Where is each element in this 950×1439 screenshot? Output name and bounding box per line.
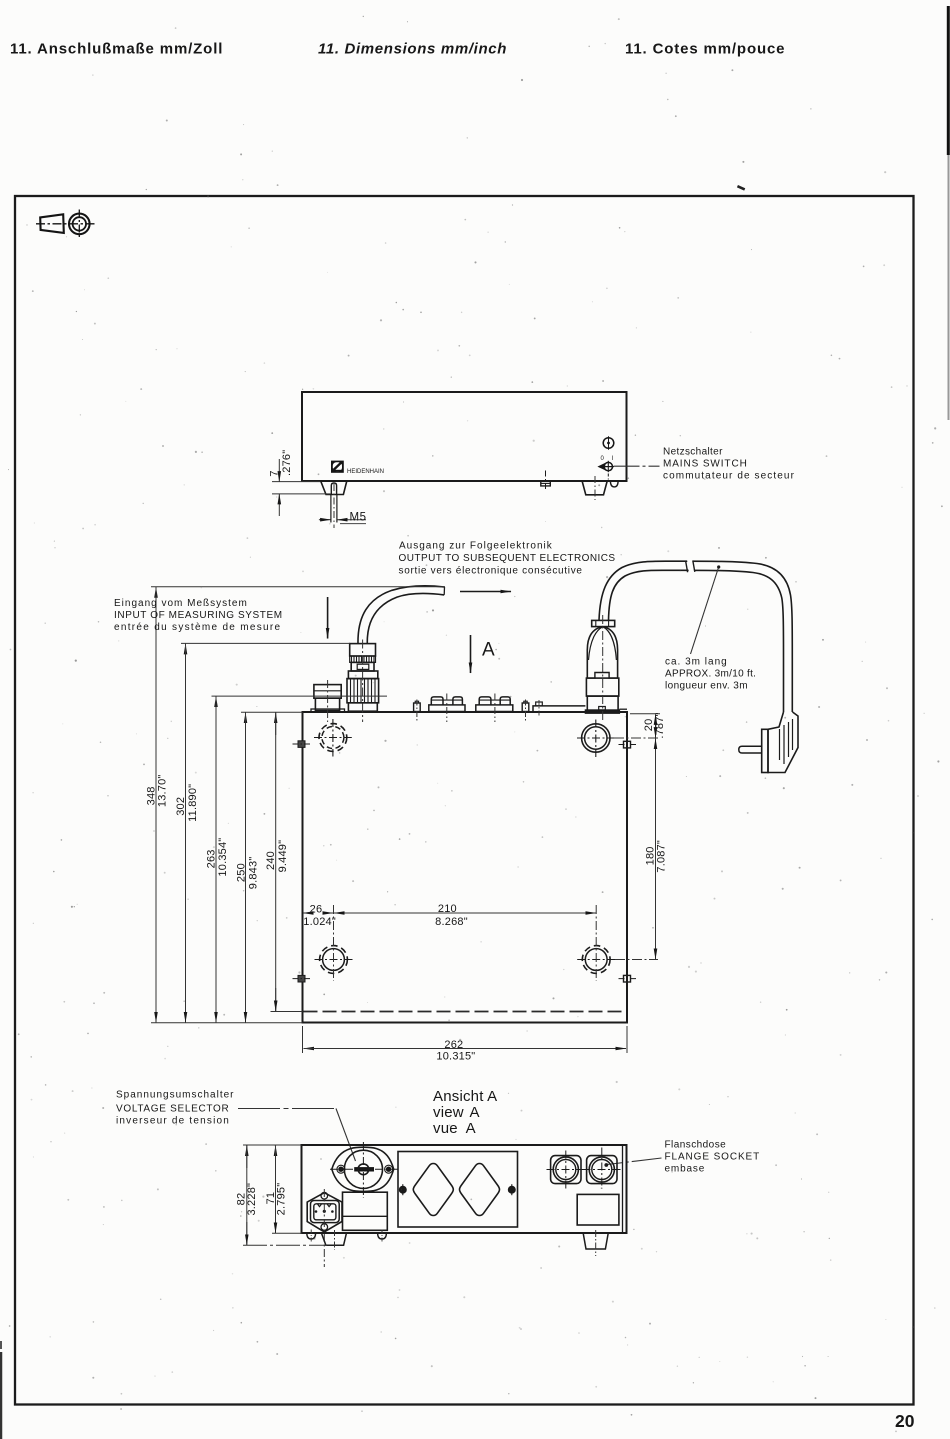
svg-text:inverseur de tension: inverseur de tension <box>116 1116 230 1127</box>
svg-text:vue A: vue A <box>433 1120 476 1137</box>
bottom view left foot <box>322 1233 347 1245</box>
bottom right box <box>577 1194 619 1225</box>
svg-text:11. Dimensions mm/inch: 11. Dimensions mm/inch <box>318 41 507 58</box>
foot circle bottom-left <box>315 946 353 974</box>
foot BR centerline extension <box>615 959 658 961</box>
svg-text:longueur env. 3m: longueur env. 3m <box>665 681 748 692</box>
svg-text:entrée du système de mesur: entrée du système de mesure <box>114 622 281 633</box>
svg-text:VOLTAGE SELECTOR: VOLTAGE SELECTOR <box>116 1104 229 1115</box>
output cable <box>599 561 792 712</box>
flange socket leader <box>607 1158 662 1165</box>
extension line dashed level <box>271 1011 303 1013</box>
input connector stack <box>347 644 379 712</box>
M5 stud centerline <box>333 484 335 528</box>
svg-text:3.228": 3.228" <box>246 1183 258 1216</box>
svg-text:7: 7 <box>269 471 281 477</box>
dim line 262 <box>304 1048 627 1050</box>
foot circle bottom-right <box>577 946 615 974</box>
mid connector 1 <box>429 697 465 712</box>
extension line 250/240 top <box>241 711 303 713</box>
front screw top right <box>603 436 614 450</box>
heidenhain logo square <box>331 461 344 473</box>
dim 26/210 line <box>303 912 597 914</box>
svg-text:10.354": 10.354" <box>217 838 229 877</box>
rear panel outline <box>302 1145 627 1233</box>
page right-edge scan line <box>947 6 950 155</box>
bottom dim 262 extension lines <box>302 1026 304 1053</box>
right top extension for 20 <box>630 713 660 715</box>
svg-text:Ausgang zur Folgeelektronik: Ausgang zur Folgeelektronik <box>399 541 553 552</box>
page left-edge scan mark <box>0 1352 2 1439</box>
dim 7/.276 dimension line with arrows <box>278 459 280 482</box>
mid connector 1 centerline <box>446 694 448 723</box>
side screw right lower <box>619 975 638 982</box>
svg-text:26: 26 <box>310 903 323 915</box>
foot BR vertical centerline ext <box>595 905 597 981</box>
fuse holder box <box>343 1192 388 1230</box>
plate screw left <box>399 1184 406 1195</box>
svg-text:A: A <box>482 640 495 661</box>
diamond cutout 1 <box>413 1164 453 1216</box>
extension line 263 top <box>212 695 388 697</box>
svg-text:240: 240 <box>265 851 277 870</box>
small rect connector on rear edge <box>311 685 345 712</box>
extension line bottom common <box>151 1022 303 1024</box>
svg-text:20: 20 <box>643 719 655 732</box>
dim line 71 <box>275 1145 277 1233</box>
voltage selector <box>330 1142 398 1198</box>
svg-text:Eingang vom Meßsystem: Eingang vom Meßsystem <box>114 598 248 609</box>
top view case outline <box>303 712 628 1023</box>
flange socket 1 <box>547 1151 586 1189</box>
ca 3m leader line <box>691 568 719 655</box>
svg-text:.787": .787" <box>654 712 666 738</box>
panel screw bump left <box>307 1233 316 1239</box>
plate screw right <box>508 1184 515 1195</box>
IEC inlet <box>307 1192 342 1232</box>
rear screw 2 <box>522 701 529 711</box>
front left foot <box>321 481 347 495</box>
svg-text:APPROX. 3m/10 ft.: APPROX. 3m/10 ft. <box>665 669 756 680</box>
panel inner right edge <box>622 1146 624 1233</box>
dim line 263 <box>215 696 217 1022</box>
IEC centerline <box>323 1189 325 1267</box>
dim 82/71 extension lines <box>243 1144 302 1146</box>
svg-text:FLANGE SOCKET: FLANGE SOCKET <box>665 1152 761 1163</box>
input direction arrow <box>327 597 329 639</box>
mains switch leader line <box>614 465 660 467</box>
foot BL vertical centerline ext <box>333 905 335 981</box>
svg-text:Ansicht A: Ansicht A <box>433 1088 497 1105</box>
svg-text:commutateur de secteur: commutateur de secteur <box>663 471 795 482</box>
svg-text:Flanschdose: Flanschdose <box>665 1140 727 1151</box>
front right screw bump <box>610 481 618 487</box>
view A arrow <box>470 635 472 673</box>
svg-text:7.087": 7.087" <box>656 840 668 873</box>
dim line 180 <box>655 738 657 960</box>
svg-text:11. Anschlußmaße mm/Zoll: 11. Anschlußmaße mm/Zoll <box>10 41 223 58</box>
svg-text:11.890": 11.890" <box>187 784 199 822</box>
first-angle projection symbol: cone <box>40 214 64 233</box>
stray mark above frame <box>737 185 745 191</box>
center cutout plate <box>398 1152 518 1228</box>
svg-text:HEIDENHAIN: HEIDENHAIN <box>347 469 384 475</box>
svg-text:0: 0 <box>601 456 605 462</box>
svg-text:13.70": 13.70" <box>156 774 168 807</box>
output connector centerline <box>602 615 604 722</box>
header row <box>10 41 785 58</box>
ca 3m label <box>665 657 756 692</box>
output connector <box>585 620 619 713</box>
svg-text:2.795": 2.795" <box>276 1183 288 1216</box>
svg-text:250: 250 <box>235 863 247 882</box>
bottom view right foot <box>583 1233 608 1249</box>
panel screw bump right <box>378 1233 387 1239</box>
foot circle top-left <box>314 719 352 757</box>
dim 7/.276 extension lines <box>272 481 320 483</box>
svg-text:Spannungsumschalter: Spannungsumschalter <box>116 1090 235 1101</box>
svg-text:Netzschalter: Netzschalter <box>663 447 723 458</box>
input cable <box>358 586 445 644</box>
svg-text:I: I <box>612 456 614 462</box>
dim line 20 <box>655 714 657 737</box>
svg-text:ca. 3m lang: ca. 3m lang <box>665 657 728 668</box>
cable break marks <box>686 559 695 573</box>
svg-text:OUTPUT TO SUBSEQUENT ELECTR: OUTPUT TO SUBSEQUENT ELECTRONICS <box>399 553 616 564</box>
rear screw 1 <box>414 701 421 711</box>
foot circle top-right <box>577 720 615 758</box>
dim line 348 <box>155 587 157 1022</box>
dim line 82 <box>246 1145 248 1245</box>
svg-text:MAINS SWITCH: MAINS SWITCH <box>663 459 748 470</box>
input connector centerline <box>362 640 364 723</box>
side screw right upper <box>619 741 638 748</box>
Ansicht A title <box>433 1088 497 1137</box>
svg-text:10.315": 10.315" <box>436 1051 475 1063</box>
mains switch label <box>663 447 795 482</box>
svg-text:9.843": 9.843" <box>248 857 260 890</box>
flange socket 2 <box>583 1148 622 1189</box>
svg-text:210: 210 <box>438 903 457 915</box>
dim line 250 <box>245 712 247 1022</box>
side screw left lower <box>293 975 313 982</box>
svg-text:9.449": 9.449" <box>277 840 289 873</box>
extension line 302 top <box>181 642 350 644</box>
svg-text:.276": .276" <box>281 450 293 476</box>
output direction arrow <box>460 591 511 593</box>
svg-text:20: 20 <box>895 1411 915 1431</box>
diamond cutout 2 <box>460 1164 500 1216</box>
plate screw dash <box>538 700 540 716</box>
side screw left upper <box>293 741 313 748</box>
svg-text:1.024": 1.024" <box>303 916 336 928</box>
extension line 348 top <box>151 586 445 588</box>
inner dashed line near bottom <box>304 1011 627 1013</box>
voltage selector leader <box>238 1109 356 1162</box>
Flanschdose label <box>665 1140 761 1175</box>
first-angle projection symbol: circle <box>36 210 96 239</box>
svg-text:302: 302 <box>175 797 187 816</box>
Eingang label <box>114 598 283 633</box>
svg-text:sortie vers électronique co: sortie vers électronique consécutive <box>399 566 583 577</box>
mid connector 2 centerline <box>494 694 496 723</box>
front right foot <box>582 481 607 495</box>
border frame <box>15 196 914 1405</box>
svg-text:11. Cotes mm/pouce: 11. Cotes mm/pouce <box>625 41 785 58</box>
mains switch toggle <box>597 461 614 480</box>
foot TR centerline extension <box>614 737 658 739</box>
svg-text:view A: view A <box>433 1104 480 1121</box>
svg-text:INPUT OF MEASURING SYSTEM: INPUT OF MEASURING SYSTEM <box>114 610 283 621</box>
front view case body <box>302 392 627 481</box>
svg-text:263: 263 <box>206 849 218 868</box>
small rect connector centerline <box>327 680 329 722</box>
mains plug <box>739 712 798 773</box>
rear mounting plate <box>533 702 627 712</box>
dim line 302 <box>185 644 187 1023</box>
Ausgang label <box>399 541 616 577</box>
svg-text:embase: embase <box>665 1164 706 1175</box>
svg-text:8.268": 8.268" <box>435 916 468 928</box>
front center screw <box>541 471 551 490</box>
Spannungsumschalter label <box>116 1090 235 1127</box>
mid connector 2 <box>476 697 513 712</box>
M5 stud in foot <box>331 483 337 523</box>
front right foot centerline <box>594 476 596 500</box>
M5 dimension arrows <box>319 519 331 521</box>
dim line 240 <box>275 712 277 1011</box>
svg-text:M5: M5 <box>350 512 367 524</box>
